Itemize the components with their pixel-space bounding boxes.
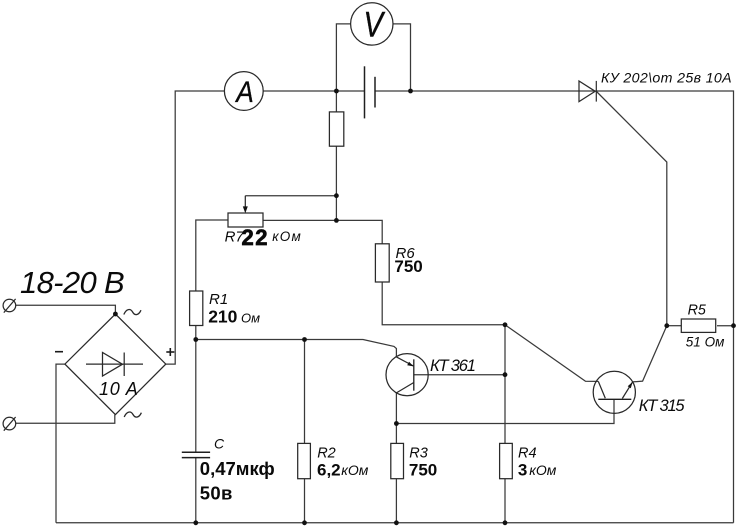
wire mid-left rail to KT361 emitter — [196, 340, 397, 357]
wire V meter right lead — [393, 24, 411, 91]
svg-text:кОм: кОм — [529, 462, 557, 478]
svg-text:22: 22 — [242, 225, 269, 250]
wire R5 left lead — [667, 325, 681, 327]
ammeter PA1 — [224, 72, 263, 111]
wire R4 bottom to bottom rail — [504, 479, 506, 523]
bridge internal diode symbol — [86, 353, 143, 377]
wire diode cathode diagonal down to R5 left node — [597, 92, 667, 326]
node: KT361 base / R4 junction — [503, 372, 508, 377]
thyristor/diode VD2 KU202 triangle — [579, 81, 595, 102]
svg-text:210: 210 — [208, 306, 237, 326]
svg-text:R3: R3 — [409, 446, 428, 462]
wire A meter to battery long plate — [263, 90, 364, 92]
wire R7 right terminal to vertical — [263, 219, 336, 221]
node: R3 on bottom rail — [394, 520, 399, 525]
wire R7 wiper to vertical — [245, 195, 336, 197]
svg-text:кОм: кОм — [341, 462, 369, 478]
resistor R4 body — [500, 443, 513, 478]
node: V left lead on main wire — [334, 89, 339, 94]
svg-text:750: 750 — [394, 257, 422, 276]
wire R1 bottom to mid-left node — [195, 326, 197, 340]
transistor Q2 KT315 body circle — [593, 371, 635, 413]
resistor R1 body — [190, 291, 203, 326]
terminal X2 bottom input clamp — [3, 417, 16, 431]
svg-text:18-20 В: 18-20 В — [20, 265, 124, 300]
node: R5 right junction — [731, 323, 736, 328]
thyristor/diode VD2 cathode bar — [595, 81, 597, 102]
wire node down to capacitor C — [195, 340, 197, 453]
label ~ top AC input mark — [124, 309, 141, 314]
wire R3 bottom to bottom rail — [395, 479, 397, 523]
wire base rail to KT315 base — [396, 399, 614, 423]
wire R7 left terminal down to R1 — [196, 220, 228, 291]
wire KT315 emitter to R5 left node — [633, 326, 667, 382]
svg-text:R2: R2 — [317, 446, 336, 462]
svg-text:750: 750 — [409, 460, 437, 479]
transistor Q1 KT361 body circle — [386, 354, 428, 396]
svg-text:R5: R5 — [688, 303, 706, 319]
capacitor C plates — [182, 452, 210, 457]
svg-text:10 A: 10 A — [99, 379, 139, 399]
resistor R6 body — [375, 244, 389, 282]
node: bridge top vertex junction — [113, 312, 118, 317]
label ~ bottom AC input mark — [124, 412, 141, 417]
shunt resistor (unlabeled) — [329, 112, 343, 146]
svg-text:Ом: Ом — [241, 311, 260, 326]
svg-text:КУ 202\от 25в 10А: КУ 202\от 25в 10А — [601, 71, 732, 87]
potentiometer R7 wiper arrow — [243, 196, 248, 214]
node: R2 on bottom rail — [302, 520, 307, 525]
wire KT361 base lead — [414, 374, 505, 376]
wire bottom rail — [56, 522, 734, 524]
wire V meter left lead — [336, 24, 350, 91]
transistor Q2 base bar — [598, 398, 631, 400]
svg-text:6,2: 6,2 — [317, 460, 341, 479]
node: R7 right terminal junction — [334, 218, 339, 223]
node: R1 bottom junction — [193, 337, 198, 342]
wire shunt resistor down to R7 nodes — [335, 146, 337, 220]
battery GB1 short plate — [374, 77, 376, 108]
bridge rectifier VD1 diamond body — [65, 314, 166, 415]
svg-text:C: C — [214, 436, 225, 452]
transistor Q1 base bar — [413, 359, 415, 390]
node: C on bottom rail — [193, 520, 198, 525]
terminal X1 top input clamp — [3, 299, 16, 313]
node: R5 left junction — [664, 323, 669, 328]
battery GB1 long plate — [364, 66, 366, 118]
svg-text:51 Ом: 51 Ом — [686, 334, 725, 349]
transistor Q1 collector diagonal — [396, 383, 413, 393]
wire capacitor to bottom rail — [195, 458, 197, 523]
node: KT361 collector / R3 / base rail junction — [394, 421, 399, 426]
potentiometer R7 body — [228, 213, 263, 227]
wire R5 right lead — [717, 325, 734, 327]
wire bridge minus rail down-left — [56, 364, 65, 523]
wire R2 bottom to bottom rail — [304, 479, 306, 523]
resistor R2 body — [298, 443, 311, 478]
resistor R3 body — [391, 443, 404, 478]
svg-text:0,47мкф: 0,47мкф — [200, 458, 275, 479]
svg-text:3: 3 — [518, 460, 527, 479]
wire top main: bridge+ rail up and across to A meter — [166, 91, 225, 364]
label minus output mark — [55, 351, 63, 353]
svg-text:кОм: кОм — [272, 229, 302, 244]
svg-text:R1: R1 — [209, 291, 228, 308]
wire node down to R2 — [304, 340, 306, 444]
wire mid node diagonal to KT315 collector — [505, 325, 598, 382]
node: R2 top junction — [302, 337, 307, 342]
svg-text:50в: 50в — [200, 483, 233, 504]
svg-text:КТ 315: КТ 315 — [639, 397, 686, 415]
transistor Q2 emitter diagonal with outward arrow — [622, 382, 632, 399]
svg-text:A: A — [235, 76, 254, 109]
wire R6 bottom to mid node — [382, 282, 505, 325]
node: V right lead on main wire — [408, 89, 413, 94]
transistor Q1 emitter with arrow into base — [396, 357, 413, 367]
label plus output mark — [166, 348, 174, 356]
node: R6 bottom mid junction — [503, 322, 508, 327]
wire main node down to shunt resistor — [335, 91, 337, 112]
wire diode cathode to top-right corner and down right edge — [596, 91, 733, 523]
wire mid node vertical down to R4 — [504, 325, 506, 444]
wire battery short plate to diode anode — [375, 90, 596, 92]
wire bottom input terminal to bridge bottom vertex — [16, 415, 115, 424]
voltmeter PV1 — [351, 3, 393, 45]
svg-text:КТ 361: КТ 361 — [430, 357, 475, 375]
resistor R5 body — [681, 319, 715, 332]
node: R7 wiper wire junction — [334, 193, 339, 198]
svg-text:V: V — [363, 6, 386, 45]
wire KT361 collector down to R3 — [395, 393, 397, 444]
wire top input terminal to bridge top vertex — [16, 305, 115, 314]
wire node to R6 top — [336, 220, 382, 243]
svg-text:R4: R4 — [518, 446, 537, 462]
transistor Q2 collector diagonal — [598, 381, 605, 398]
node: R4 on bottom rail — [503, 520, 508, 525]
